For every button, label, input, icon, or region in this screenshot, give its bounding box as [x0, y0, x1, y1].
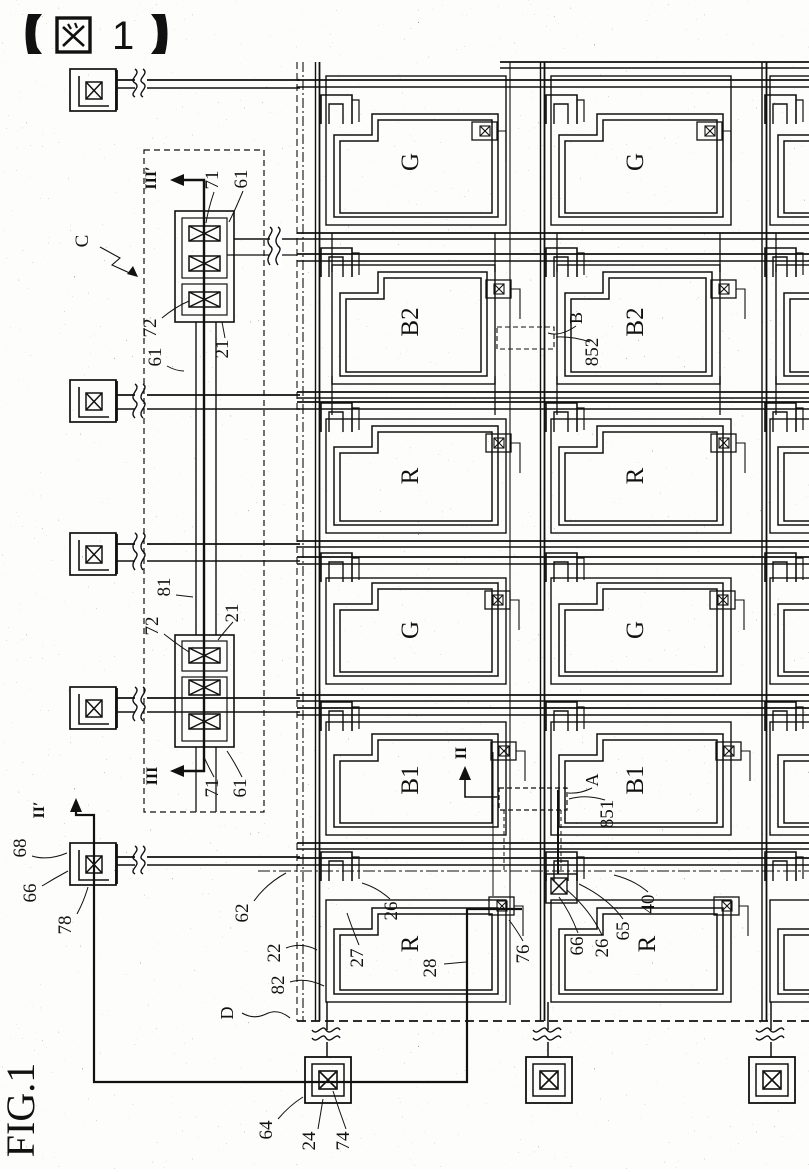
svg-text:G: G	[397, 153, 424, 171]
svg-text:72: 72	[140, 319, 161, 338]
drain contact G row4 col1	[485, 591, 519, 630]
svg-text:R: R	[634, 935, 661, 952]
drain contact G row1 col1	[472, 122, 506, 161]
data line pair column 1 left	[315, 62, 317, 1021]
gate pad wire 5	[117, 856, 300, 858]
gate pad wire 4	[117, 697, 300, 699]
auxiliary vertical line right of column 1	[509, 62, 511, 1005]
arrow III	[170, 765, 184, 777]
pixel cell R row3 col2	[546, 403, 731, 533]
title bracket right	[151, 14, 168, 54]
svg-text:B1: B1	[397, 765, 424, 794]
svg-text:78: 78	[55, 916, 76, 935]
drain contact R row3 col2	[711, 434, 745, 473]
pixel cell B1 row5 col2	[546, 702, 731, 835]
contact transistor C2-2	[189, 680, 220, 695]
svg-text:24: 24	[299, 1131, 320, 1151]
svg-text:G: G	[622, 621, 649, 639]
contact transistor C1-3	[189, 292, 220, 307]
svg-text:40: 40	[638, 895, 659, 914]
drain contact G row1 col2	[697, 122, 731, 161]
svg-text:81: 81	[154, 578, 175, 597]
pixel cell G row4 col2	[546, 553, 731, 684]
data pad bottom 2	[526, 1057, 572, 1103]
pixel cell G row1 col3	[765, 76, 809, 225]
gate line band 3 upper pair	[297, 540, 809, 542]
gate line band 1 upper pair	[297, 232, 809, 234]
gate line band 5 lower pair	[297, 857, 809, 859]
leader C zigzag	[100, 247, 134, 275]
region C dashed box	[144, 150, 264, 812]
gate line band 0 upper pair	[500, 61, 809, 63]
pixel cell G row1 col2	[546, 76, 731, 225]
svg-text:65: 65	[613, 922, 634, 941]
title bracket left	[26, 14, 43, 54]
gate line band 0 lower pair	[297, 79, 809, 81]
gate pad left 4	[70, 687, 117, 729]
pixel cell R row3 col1	[321, 403, 506, 533]
data line pair column 3 left	[761, 62, 763, 1021]
drain contact B1 row5 col1	[491, 742, 525, 781]
drain contact R row6 col1	[489, 897, 523, 936]
drain contact B2 row2 col1	[486, 280, 520, 319]
gate line band 4 lower pair	[297, 707, 809, 709]
dash-dot vertical boundary line	[302, 62, 304, 1021]
svg-text:64: 64	[256, 1120, 277, 1140]
arrow IIp	[70, 798, 82, 812]
gate pad left 2	[70, 380, 117, 422]
gate line band 4 upper pair	[297, 694, 809, 696]
pixel cell B2 row2 col3	[765, 233, 809, 415]
drain contact B2 row2 col2	[711, 280, 745, 319]
gate pad wire 3	[117, 543, 300, 545]
svg-text:G: G	[622, 153, 649, 171]
gate pad left 3	[70, 533, 117, 575]
arrow II	[465, 779, 497, 797]
title kanji zu (box with cross)	[57, 18, 90, 52]
gate line band 3 lower pair	[297, 556, 809, 558]
svg-text:71: 71	[202, 171, 223, 190]
drain contact G row4 col2	[710, 591, 744, 630]
svg-text:R: R	[397, 935, 424, 952]
svg-text:71: 71	[202, 779, 223, 798]
data pad bottom 2 wire	[547, 1002, 549, 1057]
pixel cell B1 row5 col1	[321, 702, 506, 835]
contact transistor C2-3	[189, 714, 220, 729]
pixel edge line near region A	[492, 752, 494, 896]
drain contact R row6 col2	[714, 897, 748, 936]
region A dashed verticals	[503, 810, 505, 872]
svg-text:76: 76	[513, 945, 534, 964]
svg-text:B2: B2	[397, 307, 424, 336]
node A connection line	[557, 790, 559, 874]
section line II-IIp dash-dot horizontal	[258, 870, 809, 872]
arrow IIIp	[170, 174, 184, 186]
svg-text:II: II	[453, 747, 470, 759]
svg-text:28: 28	[420, 959, 441, 978]
contact transistor C2-1	[189, 648, 220, 663]
pixel cell B1 row5 col3	[765, 702, 809, 835]
data pad bottom 1	[305, 1057, 351, 1103]
section line IIp-28 thick polyline	[76, 806, 522, 1082]
pixel cell B2 row2 col1	[321, 233, 495, 415]
svg-text:C: C	[72, 235, 93, 248]
svg-text:R: R	[622, 467, 649, 484]
pixel cell R row3 col3	[765, 403, 809, 533]
svg-text:21: 21	[212, 340, 233, 359]
gate line band 1 lower pair	[297, 253, 809, 255]
pixel cell G row1 col1	[321, 76, 506, 225]
svg-text:22: 22	[264, 944, 285, 963]
svg-text:1: 1	[112, 14, 134, 58]
svg-text:B2: B2	[622, 307, 649, 336]
gate line band 2 upper pair	[297, 391, 809, 393]
svg-text:A: A	[582, 774, 602, 787]
svg-text:26: 26	[592, 939, 613, 958]
transistor group C2 outline	[175, 635, 234, 747]
svg-text:II′: II′	[31, 802, 48, 819]
svg-text:B: B	[566, 312, 586, 324]
drain contact B1 row5 col2	[716, 742, 750, 781]
svg-text:62: 62	[232, 904, 253, 923]
drain contact R row3 col1	[486, 434, 520, 473]
svg-text:R: R	[397, 467, 424, 484]
pixel cell R row6 col1	[321, 852, 506, 1002]
svg-text:D: D	[217, 1007, 237, 1020]
svg-text:III: III	[144, 767, 161, 786]
svg-text:21: 21	[222, 604, 243, 623]
data line pair column 2 left	[540, 62, 542, 1021]
dashed lower boundary line D	[297, 1020, 809, 1022]
svg-text:61: 61	[145, 348, 166, 367]
svg-text:66: 66	[567, 937, 588, 956]
svg-text:72: 72	[142, 617, 163, 636]
data pad bottom 3	[749, 1057, 795, 1103]
gate pad wire 2	[117, 394, 300, 396]
section line III-IIIp thick vertical	[178, 180, 204, 771]
wire from group C1 to gate band	[234, 238, 297, 240]
svg-text:27: 27	[347, 949, 368, 968]
pixel cell R row6 col2	[546, 852, 731, 1002]
svg-text:82: 82	[268, 976, 289, 995]
svg-text:852: 852	[582, 338, 603, 367]
data pad bottom 3 wire	[770, 1002, 772, 1057]
contact cluster below A	[546, 874, 577, 903]
svg-text:68: 68	[10, 839, 31, 858]
gate line band 2 lower pair	[297, 401, 809, 403]
svg-text:66: 66	[20, 884, 41, 903]
pixel cell B2 row2 col2	[546, 233, 720, 415]
transistor group C1 outline	[175, 211, 234, 322]
pixel cell R row6 col3	[765, 852, 809, 1002]
svg-text:61: 61	[230, 779, 251, 798]
contact transistor C1-1	[189, 226, 220, 241]
region B dashed box	[497, 327, 554, 349]
svg-text:FIG.1: FIG.1	[0, 1063, 43, 1157]
gate pad left 5	[70, 843, 117, 885]
gate line band 5 upper pair	[297, 842, 809, 844]
svg-text:74: 74	[333, 1131, 354, 1151]
gate pad wire 1	[117, 79, 300, 81]
svg-text:851: 851	[597, 800, 618, 829]
pixel cell G row4 col1	[321, 553, 506, 684]
dashed vertical boundary line left	[296, 62, 298, 1021]
pixel cell G row4 col3	[765, 553, 809, 684]
wires below group C2	[195, 747, 197, 812]
data pad bottom 1 wire	[326, 1002, 328, 1057]
svg-text:G: G	[397, 621, 424, 639]
region A dashed box	[499, 788, 567, 810]
svg-text:III′: III′	[143, 166, 160, 189]
svg-text:26: 26	[381, 902, 402, 921]
contact transistor C1-2	[189, 256, 220, 271]
svg-text:61: 61	[231, 170, 252, 189]
wire 21 between groups	[215, 322, 217, 635]
gate pad left 1	[70, 69, 117, 111]
svg-text:B1: B1	[622, 765, 649, 794]
wire 81 between groups	[195, 322, 197, 635]
